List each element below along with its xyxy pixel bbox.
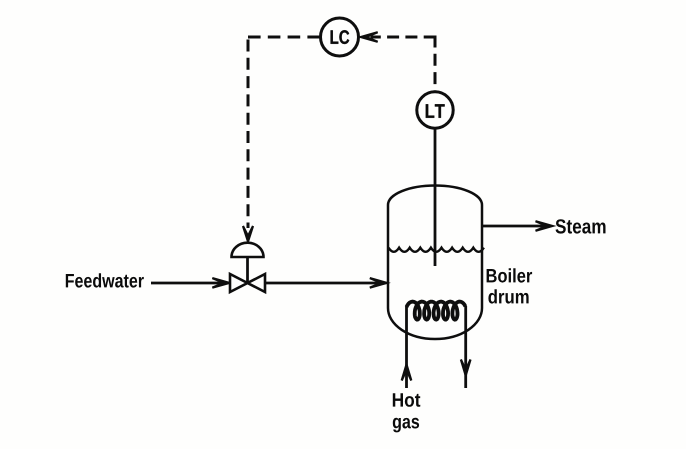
label Feedwater (66, 273, 144, 287)
control valve body (230, 274, 265, 292)
boiler drum vessel (388, 186, 482, 340)
arrow feedwater into valve (212, 278, 229, 288)
water level wavy line (389, 248, 484, 252)
wire: dashed signal line LT up to corner (434, 36, 437, 93)
label Hot gas (393, 393, 421, 407)
arrow into valve actuator (243, 226, 253, 242)
label Steam (556, 219, 606, 233)
arrow gas down (461, 360, 471, 376)
arrow into drum (370, 278, 387, 288)
wire: LT stem into drum (434, 129, 437, 266)
valve actuator dome (232, 243, 264, 257)
arrow into LC (361, 32, 378, 42)
label Boiler drum (487, 268, 532, 282)
wire: dashed signal line corner to LC arrow (371, 36, 436, 39)
hot gas inlet pipe (405, 306, 408, 388)
arrow hot gas up (402, 365, 412, 381)
valve stem (246, 257, 249, 283)
wire: valve to drum line (265, 282, 381, 285)
arrow steam (536, 221, 553, 231)
controller LC (321, 18, 359, 56)
gas outlet pipe (464, 306, 467, 388)
heating coil (407, 302, 466, 320)
wire: feedwater line into valve (151, 282, 224, 285)
transmitter LT (417, 92, 453, 128)
wire: dashed signal line corner down to valve actuator (247, 40, 250, 229)
wire: dashed signal line from LC left to corner (248, 36, 320, 39)
steam outlet line (482, 225, 547, 228)
